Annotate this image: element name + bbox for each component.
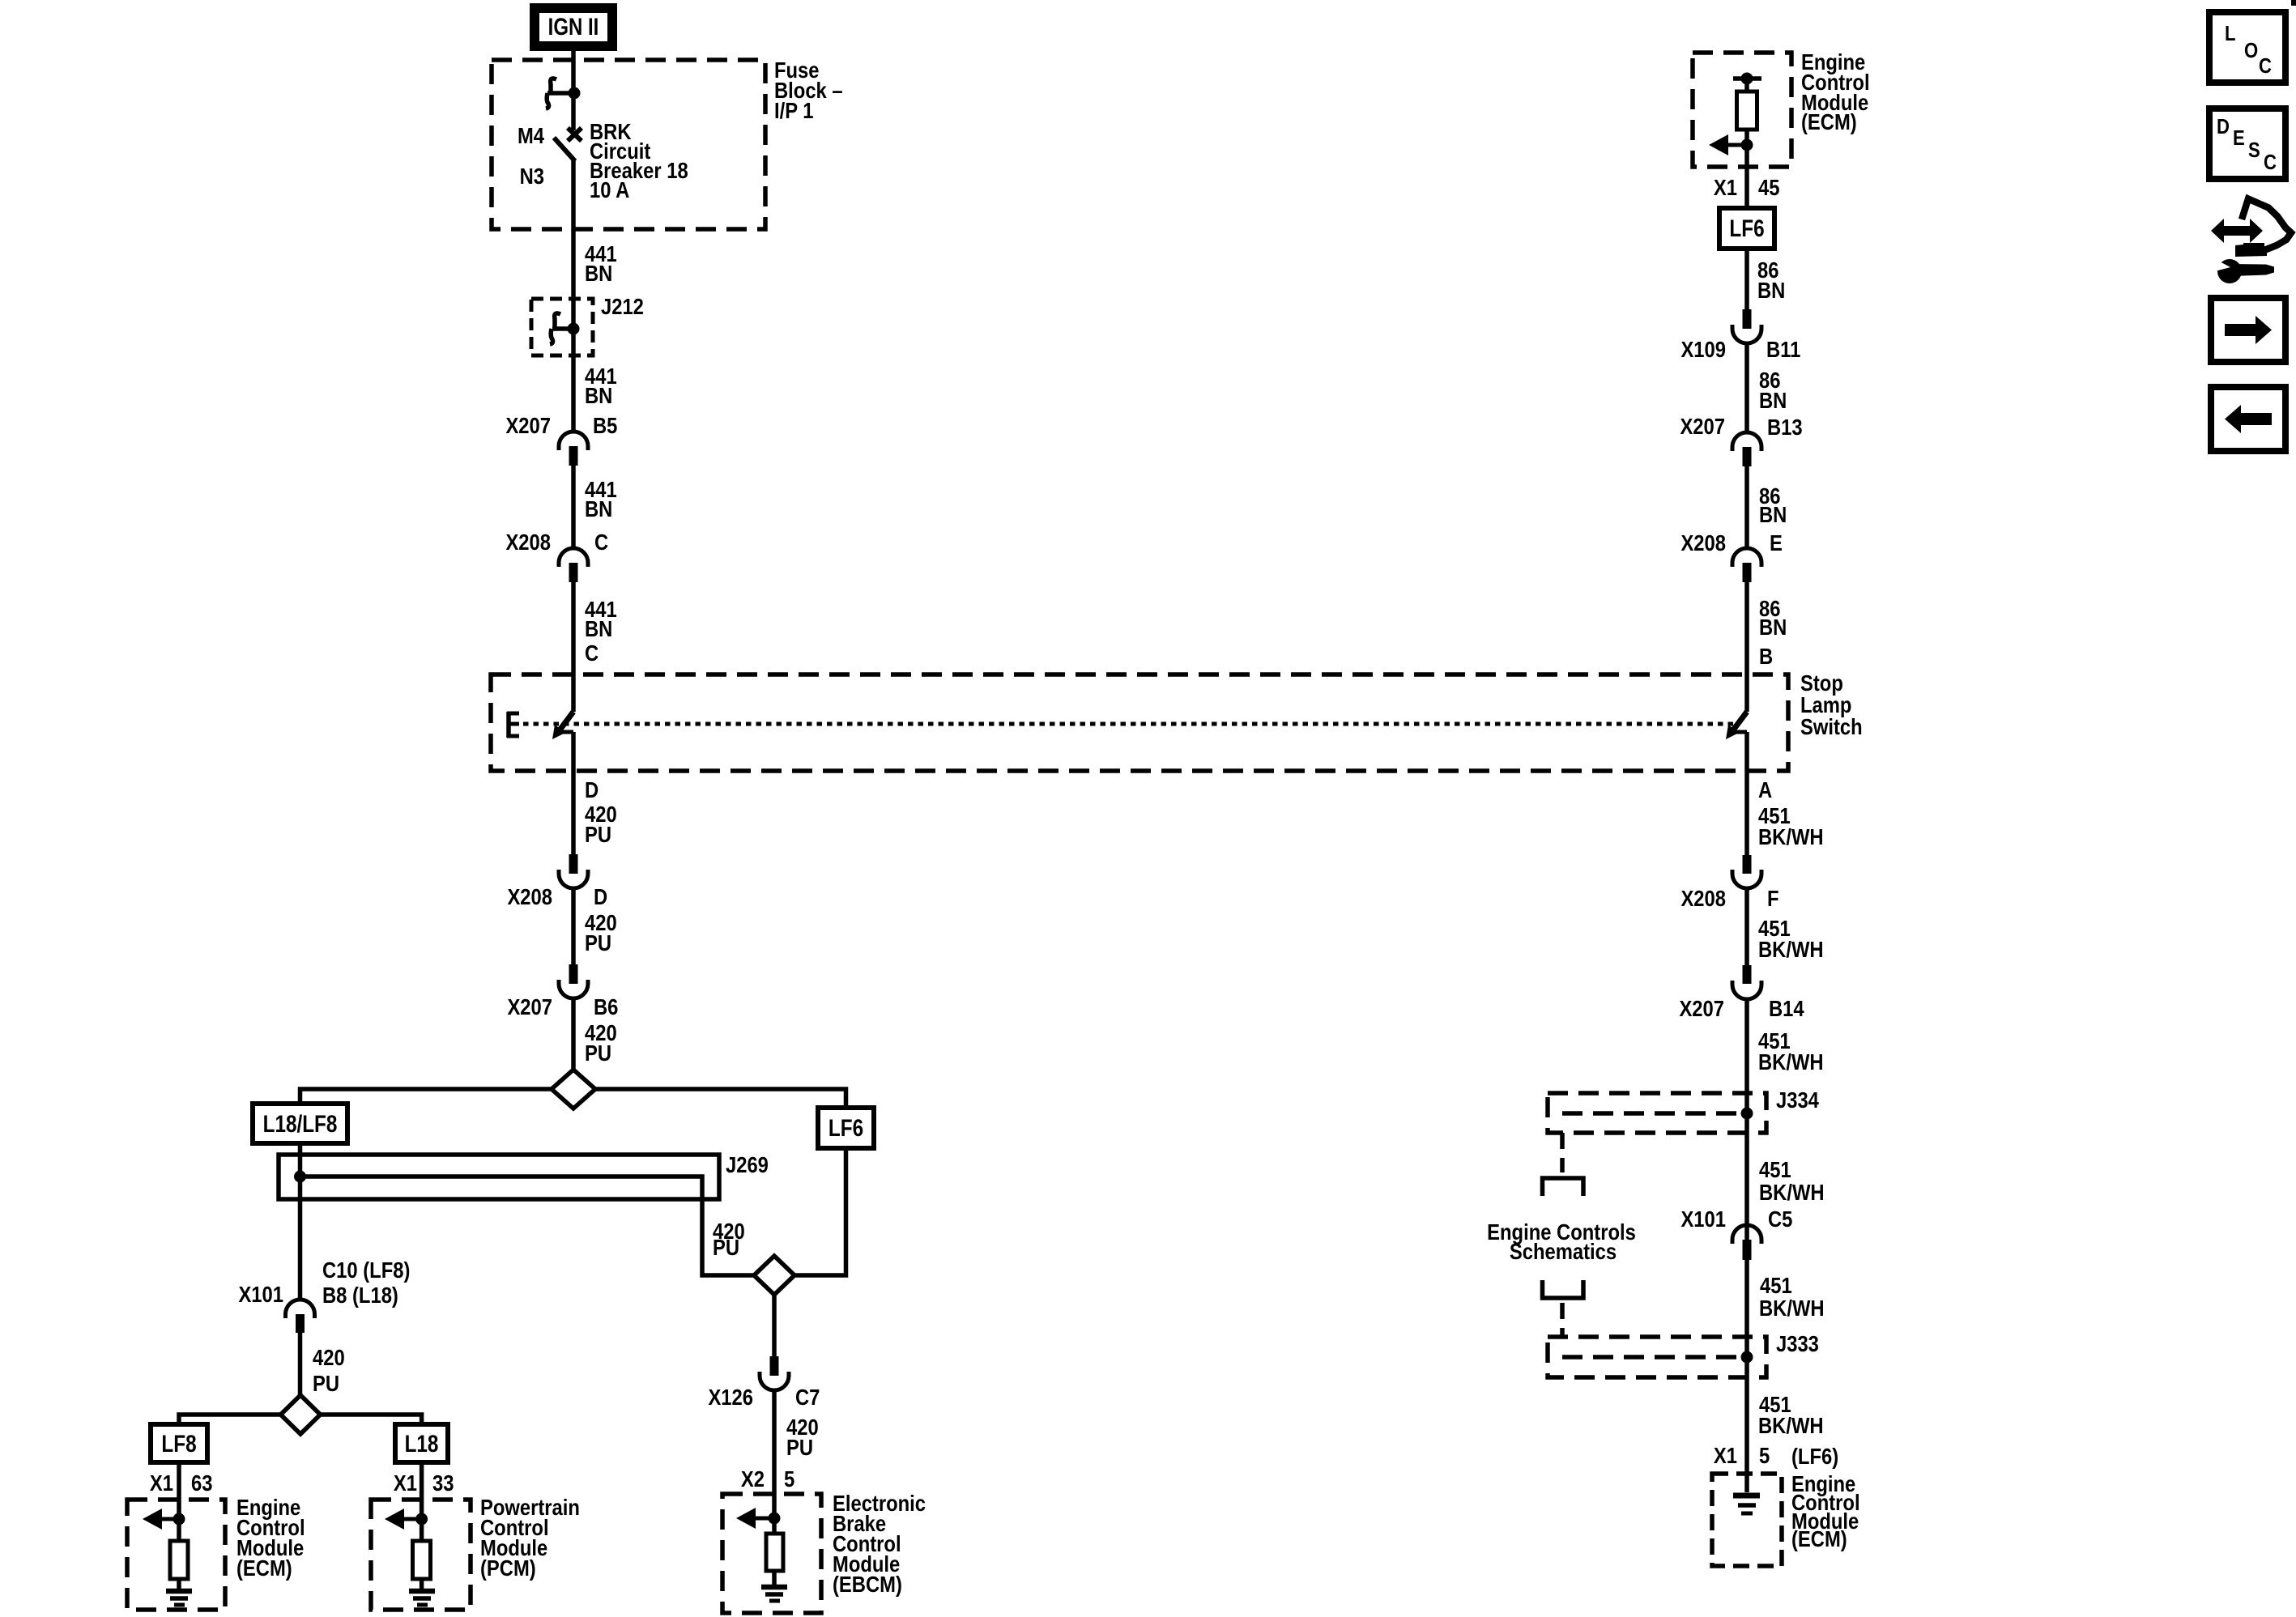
label Engine Control Module (ECM) bottom — [1791, 1470, 1860, 1551]
wire label 451 BK/WH — [1759, 1272, 1825, 1321]
fuse block dashed box — [492, 60, 765, 229]
module ECM dashed box (top right) — [1693, 53, 1791, 167]
wire label 441 BN — [585, 240, 617, 286]
wire label 420 PU — [313, 1344, 345, 1396]
svg-text:E: E — [1770, 530, 1783, 555]
wire label 86 BN — [1759, 595, 1787, 640]
module ECM dashed box (left) — [127, 1500, 225, 1610]
svg-text:C7: C7 — [795, 1384, 820, 1410]
wire (resistor to ground) — [772, 1571, 777, 1585]
connector X109 pin B11 — [1680, 309, 1800, 362]
svg-text:C: C — [2264, 151, 2277, 174]
wire (IGN II to breaker) — [571, 51, 576, 130]
junction (ECM output) — [1741, 139, 1753, 151]
module PCM dashed box — [371, 1500, 471, 1610]
svg-text:X208: X208 — [507, 883, 552, 909]
label Stop Lamp Switch — [1800, 670, 1863, 739]
module EBCM dashed box — [722, 1494, 821, 1613]
svg-text:X1: X1 — [1714, 174, 1737, 200]
svg-text:J333: J333 — [1776, 1330, 1819, 1356]
connector X207 pin B14 — [1679, 965, 1804, 1021]
wire (resistor to ground) — [177, 1579, 181, 1589]
connector label X2 pin 5 — [741, 1466, 794, 1491]
svg-text:L: L — [2225, 22, 2235, 45]
wire label 86 BN — [1757, 257, 1785, 303]
nav icon back arrow box — [2211, 387, 2285, 451]
svg-text:(PCM): (PCM) — [480, 1555, 536, 1581]
svg-text:A: A — [1758, 777, 1772, 802]
svg-text:BN: BN — [585, 260, 612, 286]
switch common bracket E — [507, 712, 519, 738]
svg-text:X208: X208 — [1680, 530, 1726, 555]
connector X208 pin F — [1680, 855, 1778, 911]
svg-text:B6: B6 — [594, 994, 618, 1019]
resistor (ECM pull-up) — [1737, 91, 1757, 130]
wire (X101 to splice) — [298, 1333, 303, 1395]
svg-text:5: 5 — [784, 1466, 794, 1491]
splice J212 clip — [550, 313, 580, 344]
wire to L18/LF8 — [300, 1089, 552, 1104]
svg-text:(EBCM): (EBCM) — [833, 1571, 902, 1597]
wire J269 internal branch — [300, 1177, 756, 1275]
svg-text:BN: BN — [585, 615, 612, 641]
connector X208 pin C — [505, 529, 608, 582]
svg-text:10 A: 10 A — [590, 177, 630, 202]
svg-text:N3: N3 — [520, 163, 544, 189]
module ECM dashed box (bottom right) — [1712, 1474, 1782, 1566]
svg-text:L18/LF8: L18/LF8 — [263, 1110, 338, 1138]
junction J269 — [294, 1171, 306, 1183]
wire label 420 PU (right branch) — [713, 1218, 745, 1260]
splice J269 box — [279, 1155, 719, 1199]
resistor (PCM) — [413, 1541, 431, 1579]
svg-text:B8 (L18): B8 (L18) — [322, 1282, 398, 1308]
wire label 86 BN — [1759, 367, 1787, 413]
wire (LF8 to ECM) — [177, 1462, 181, 1541]
svg-text:X1: X1 — [394, 1470, 417, 1496]
svg-text:X1: X1 — [1714, 1442, 1737, 1468]
svg-text:BN: BN — [1759, 387, 1787, 413]
connector X208 pin E — [1680, 530, 1782, 582]
junction (EBCM) — [769, 1513, 781, 1525]
svg-text:B13: B13 — [1767, 414, 1803, 440]
svg-text:I/P 1: I/P 1 — [774, 97, 814, 123]
svg-text:PU: PU — [786, 1434, 813, 1460]
svg-text:(ECM): (ECM) — [236, 1555, 292, 1581]
svg-text:X2: X2 — [741, 1466, 765, 1491]
circuit breaker element hook — [546, 79, 574, 109]
svg-text:X1: X1 — [150, 1470, 173, 1496]
svg-text:BK/WH: BK/WH — [1758, 823, 1824, 849]
svg-text:B11: B11 — [1766, 336, 1800, 362]
nav icon jump-with-wrench — [2211, 199, 2291, 284]
svg-text:B14: B14 — [1769, 995, 1804, 1021]
ground (EBCM) — [761, 1587, 787, 1601]
stop lamp switch dashed box — [491, 674, 1788, 771]
wire label 420 PU — [585, 801, 617, 847]
svg-text:PU: PU — [585, 1040, 611, 1066]
wire 420 PU (X208 to X207) — [571, 888, 576, 964]
connector X101 pins C10/B8 — [238, 1257, 410, 1333]
svg-text:J334: J334 — [1776, 1087, 1819, 1113]
svg-text:63: 63 — [191, 1470, 212, 1496]
svg-text:PU: PU — [585, 821, 611, 847]
wire (resistor to LF6) — [1744, 130, 1749, 208]
RPO box L18 — [395, 1424, 448, 1462]
junction (ECM) — [173, 1513, 185, 1526]
svg-text:C: C — [594, 529, 608, 555]
svg-text:J269: J269 — [726, 1151, 769, 1177]
stop lamp switch right blade — [1726, 712, 1747, 739]
wire label 451 BK/WH — [1759, 1156, 1825, 1205]
svg-text:C: C — [585, 640, 598, 666]
wire label 441 BN — [585, 363, 617, 408]
wire 420 PU (X207 to splice) — [571, 998, 576, 1070]
wire 451 BK/WH (X208 to X207) — [1744, 888, 1749, 965]
connector label X1 pin 63 — [150, 1470, 213, 1496]
svg-text:33: 33 — [432, 1470, 454, 1496]
connector label X1 pin 5 (LF6) — [1714, 1442, 1838, 1469]
junction (PCM) — [415, 1513, 428, 1526]
svg-text:X101: X101 — [238, 1281, 283, 1307]
svg-text:BN: BN — [1757, 277, 1785, 303]
svg-text:C10 (LF8): C10 (LF8) — [322, 1257, 410, 1283]
svg-text:5: 5 — [1759, 1442, 1770, 1468]
wire 86 BN (X207 to X208) — [1744, 466, 1749, 548]
svg-text:Schematics: Schematics — [1510, 1238, 1617, 1264]
svg-text:L18: L18 — [405, 1430, 439, 1457]
splice J212 dashed box — [531, 299, 593, 355]
svg-text:PU: PU — [585, 930, 611, 955]
ground (ECM bottom right) — [1733, 1496, 1760, 1513]
svg-text:Switch: Switch — [1800, 713, 1863, 739]
svg-text:BK/WH: BK/WH — [1759, 1179, 1825, 1205]
value label BRK Circuit Breaker 18 10 A — [590, 118, 688, 202]
svg-text:X101: X101 — [1680, 1206, 1726, 1232]
svg-text:J212: J212 — [601, 293, 644, 319]
svg-text:C5: C5 — [1768, 1206, 1792, 1232]
EBCM input arrow — [736, 1508, 774, 1529]
svg-text:X126: X126 — [708, 1384, 753, 1410]
wire (resistor to ground) — [420, 1579, 424, 1589]
RPO box LF6 — [818, 1108, 874, 1148]
svg-text:45: 45 — [1758, 174, 1779, 200]
wire 420 PU (switch to X208) — [571, 732, 576, 854]
wire 451 BK/WH (X207 to ECM ground) — [1744, 999, 1749, 1492]
svg-text:X207: X207 — [1679, 995, 1724, 1021]
svg-text:BN: BN — [585, 382, 612, 408]
svg-text:X109: X109 — [1680, 336, 1726, 362]
wire to L18 — [321, 1415, 422, 1424]
svg-text:X208: X208 — [505, 529, 551, 555]
connector X207 pin B5 — [505, 412, 617, 466]
svg-text:BK/WH: BK/WH — [1758, 1049, 1824, 1074]
splice J333 dashed box — [1548, 1337, 1766, 1377]
svg-text:420: 420 — [313, 1344, 345, 1370]
RPO box L18/LF8 — [253, 1104, 347, 1143]
splice diamond (to ECM/PCM) — [281, 1395, 321, 1434]
wire label 420 PU — [585, 1019, 617, 1066]
wire label 420 PU — [786, 1414, 819, 1460]
connector X208 pin D — [507, 854, 607, 909]
RPO box LF6 (right) — [1719, 208, 1774, 249]
svg-text:M4: M4 — [518, 122, 545, 148]
resistor (ECM) — [170, 1541, 188, 1579]
svg-text:BN: BN — [1759, 614, 1787, 640]
connector X126 pin C7 — [708, 1356, 820, 1410]
wire (X126 to EBCM) — [772, 1390, 777, 1534]
wire label 451 BK/WH — [1758, 802, 1824, 849]
wire LF6 to splice — [794, 1148, 846, 1275]
svg-text:BN: BN — [585, 496, 612, 521]
svg-text:E: E — [2233, 126, 2245, 150]
label Powertrain Control Module (PCM) — [480, 1494, 580, 1581]
nav icon DESC box — [2209, 109, 2285, 179]
wire (bar to resistor) — [1744, 79, 1749, 91]
ground (PCM) — [409, 1591, 435, 1605]
svg-text:PU: PU — [313, 1370, 339, 1396]
page corner mark — [2291, 0, 2296, 6]
wire splice to X126 — [772, 1295, 777, 1356]
connector X207 pin B13 — [1680, 413, 1802, 466]
svg-text:(ECM): (ECM) — [1801, 109, 1857, 134]
PCM input arrow — [385, 1508, 422, 1530]
reference text Engine Controls Schematics — [1487, 1219, 1636, 1264]
connector X101 pin C5 — [1680, 1206, 1792, 1260]
wire to LF6 — [595, 1089, 846, 1108]
nav icon forward arrow box — [2211, 298, 2285, 362]
wire 441 BN (X207 to X208) — [571, 466, 576, 548]
svg-text:BN: BN — [1759, 501, 1787, 527]
svg-text:X208: X208 — [1680, 885, 1726, 911]
svg-text:C: C — [2259, 54, 2272, 78]
splice diamond (to EBCM) — [754, 1256, 794, 1295]
label Engine Control Module (ECM) — [236, 1494, 305, 1581]
power feed box IGN II — [530, 3, 617, 51]
wire label 441 BN — [585, 596, 617, 641]
wire label 441 BN — [585, 476, 617, 521]
svg-text:O: O — [2244, 39, 2258, 62]
svg-text:B: B — [1759, 643, 1773, 669]
svg-text:D: D — [585, 777, 598, 802]
junction J333 — [1741, 1351, 1753, 1364]
connector label X1 pin 45 — [1714, 174, 1780, 200]
wire 441 BN (X208 to stop lamp switch) — [571, 582, 576, 712]
wire 86 BN (X208 to switch) — [1744, 582, 1749, 712]
connector label X1 pin 33 — [394, 1470, 454, 1496]
wire label 451 BK/WH — [1758, 915, 1824, 962]
svg-text:LF6: LF6 — [1729, 215, 1764, 242]
ECM output arrow — [1709, 134, 1747, 155]
svg-text:BK/WH: BK/WH — [1758, 1412, 1824, 1438]
J333 branch to schematics — [1543, 1280, 1584, 1337]
splice diamond (420 PU distribution) — [552, 1070, 595, 1108]
wire 441 BN (breaker to X207) — [571, 160, 576, 432]
svg-text:(ECM): (ECM) — [1791, 1526, 1847, 1551]
ECM internal feed bar — [1733, 76, 1761, 81]
resistor (EBCM pull-up) — [766, 1534, 783, 1571]
switch coupling dotted line — [523, 722, 1733, 726]
J334 branch to schematics — [1543, 1133, 1584, 1196]
wire label 451 BK/WH — [1758, 1028, 1824, 1074]
nav icon LOC box — [2209, 12, 2285, 83]
svg-text:X207: X207 — [505, 412, 551, 438]
stop lamp switch left blade — [552, 712, 573, 739]
wire label 420 PU — [585, 909, 617, 955]
svg-text:F: F — [1767, 885, 1779, 911]
wire (L18/LF8 through J269 to X101) — [298, 1143, 303, 1300]
circuit breaker M4/N3 switch blade — [554, 138, 575, 161]
svg-text:X207: X207 — [507, 994, 552, 1019]
ground (ECM left) — [166, 1591, 192, 1605]
junction (ECM feed) — [1741, 73, 1753, 85]
wire label 451 BK/WH — [1758, 1391, 1824, 1438]
svg-text:BK/WH: BK/WH — [1759, 1295, 1825, 1321]
svg-text:IGN II: IGN II — [548, 12, 599, 40]
wire 86 BN (LF6 to X109) — [1744, 249, 1749, 309]
splice J334 dashed box — [1548, 1093, 1766, 1133]
label Electronic Brake Control Module (EBCM) — [833, 1490, 926, 1597]
svg-text:B5: B5 — [593, 412, 617, 438]
svg-text:LF8: LF8 — [161, 1430, 196, 1457]
RPO box LF8 — [151, 1424, 207, 1462]
svg-text:S: S — [2248, 138, 2260, 162]
label Fuse Block - I/P 1 — [774, 57, 843, 123]
svg-text:D: D — [594, 883, 607, 909]
svg-text:(LF6): (LF6) — [1791, 1443, 1838, 1469]
connector X207 pin B6 — [507, 964, 618, 1019]
label Engine Control Module (ECM) top — [1801, 49, 1870, 134]
svg-text:X207: X207 — [1680, 413, 1725, 439]
svg-text:LF6: LF6 — [829, 1114, 863, 1142]
junction J334 — [1741, 1108, 1753, 1120]
wire 86 BN (X109 to X207) — [1744, 343, 1749, 432]
svg-text:BK/WH: BK/WH — [1758, 936, 1824, 962]
wire 451 BK/WH (switch to X208) — [1744, 732, 1749, 855]
junction (breaker feed) — [569, 87, 581, 100]
svg-text:D: D — [2217, 115, 2230, 138]
wire label 86 BN — [1759, 483, 1787, 527]
svg-text:PU: PU — [713, 1234, 739, 1260]
ECM input arrow — [143, 1508, 179, 1530]
breaker contact X — [568, 128, 581, 141]
wire (L18 to PCM) — [420, 1462, 424, 1541]
wire to LF8 — [179, 1415, 281, 1424]
